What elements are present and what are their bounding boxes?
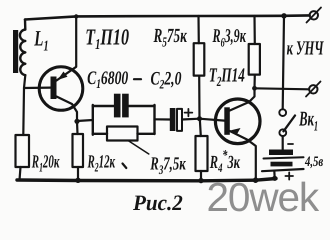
battery plate 4 long thin [262, 169, 304, 171]
wire node A to network [77, 120, 93, 121]
svg-text:Вк1: Вк1 [299, 107, 319, 135]
switch Bk1 top contact [279, 109, 286, 116]
wire rail to R5 [197, 16, 200, 43]
svg-text:С22,0: С22,0 [151, 69, 182, 92]
svg-text:Т1П10: Т1П10 [85, 25, 129, 54]
transistor Q1 T1 circle [39, 67, 83, 111]
network top branch right segment [129, 105, 155, 107]
wire base line T1 [24, 86, 51, 89]
C2 plus sign [185, 109, 193, 116]
svg-text:Рис.2: Рис.2 [132, 190, 183, 215]
junction dot T2 emitter bottom [253, 177, 259, 183]
wire bottom rail [17, 179, 276, 181]
wire node B to R4 [200, 119, 201, 136]
svg-text:Т2П14: Т2П14 [209, 65, 245, 91]
transistor T2 collector line [230, 88, 255, 110]
svg-text:R575к: R575к [153, 25, 188, 51]
wire top rail [25, 15, 310, 19]
capacitor C1 left plate [114, 94, 121, 118]
svg-text:L1: L1 [34, 26, 49, 55]
wire node A down to R2 [76, 121, 79, 134]
junction dot R2 bottom [75, 178, 80, 183]
terminal 2 circle [309, 85, 317, 93]
wire rail to R6 [253, 16, 256, 44]
resistor R1 [16, 135, 30, 167]
battery plate 2 long thin [264, 157, 304, 158]
svg-text:С16800: С16800 [87, 68, 129, 91]
wire output line to terminal 2 [255, 88, 310, 89]
switch Bk1 bottom contact [279, 129, 286, 136]
network bottom branch right segment [138, 133, 155, 135]
transistor T1 collector line [57, 97, 78, 122]
battery minus tick [288, 143, 293, 145]
node B junction dot [197, 116, 202, 121]
dash between C1 and C2 labels [134, 78, 141, 80]
transistor T2 base bar [224, 107, 230, 135]
resistor R4 [196, 136, 208, 171]
junction dot output node [252, 86, 257, 91]
transistor T1 emitter arrow [58, 72, 68, 81]
junction dot switch feed on rail [281, 13, 286, 18]
wire network right stub to C2 [155, 118, 170, 120]
wire left vertical below coil [23, 75, 25, 135]
svg-text:R63,9к: R63,9к [212, 26, 247, 50]
battery GB plate 1 short thick [269, 150, 293, 156]
wire battery to rail [273, 171, 276, 179]
wire switch to battery [282, 136, 284, 149]
capacitor C2 left plate [170, 108, 176, 131]
network right vertical [153, 105, 155, 134]
terminal 1 circle [310, 11, 318, 19]
transistor T1 emitter line [57, 16, 77, 80]
wire R4 to rail [200, 171, 202, 181]
svg-text:20wek: 20wek [207, 174, 320, 216]
svg-text:R212к: R212к [87, 153, 116, 175]
transistor T1 base bar [51, 77, 57, 100]
svg-text:к УНЧ: к УНЧ [287, 38, 325, 60]
svg-text:4,5в: 4,5в [304, 154, 323, 170]
svg-text:R4*3к: R4*3к [209, 148, 240, 175]
switch Bk1 lever [284, 116, 296, 132]
ferrite rod bar [13, 30, 18, 73]
tick after R2 label [123, 164, 127, 169]
battery plus sign [285, 172, 293, 179]
transistor T2 emitter line [230, 131, 256, 180]
junction dot T1 emitter at rail [74, 14, 78, 18]
node A junction dot [74, 119, 79, 124]
wire R2 to rail [77, 167, 79, 180]
svg-text:R37,5к: R37,5к [150, 154, 187, 177]
inductor L1 [20, 30, 25, 76]
wire R1 to rail [20, 167, 21, 180]
junction dot R4 bottom [198, 178, 203, 183]
wire left corner down to coil [24, 20, 27, 30]
network top branch left segment [93, 105, 114, 107]
svg-text:R120к: R120к [31, 152, 60, 174]
capacitor C1 right plate [122, 94, 129, 118]
terminal 1 slash [307, 8, 322, 23]
wire rail to switch [283, 16, 284, 109]
label pointer line R3 [128, 141, 149, 155]
resistor R6 [249, 44, 260, 75]
transistor Q2 T2 circle [215, 99, 260, 144]
resistor R5 [194, 43, 205, 75]
junction dot battery bottom [272, 176, 277, 181]
wire R5 to node B [198, 76, 201, 119]
wire base line T2 [200, 119, 225, 121]
battery plate 3 short thick [271, 162, 293, 167]
resistor R2 [73, 134, 84, 167]
resistor R3 [107, 127, 138, 141]
wire R6 down to output node [253, 75, 256, 89]
terminal 2 slash [306, 82, 321, 97]
capacitor C2 right plate [177, 109, 182, 131]
transistor T2 emitter arrow [231, 128, 241, 135]
network bottom branch left segment [93, 133, 107, 135]
network left vertical [92, 105, 94, 135]
wire C2 to node B [182, 118, 200, 121]
